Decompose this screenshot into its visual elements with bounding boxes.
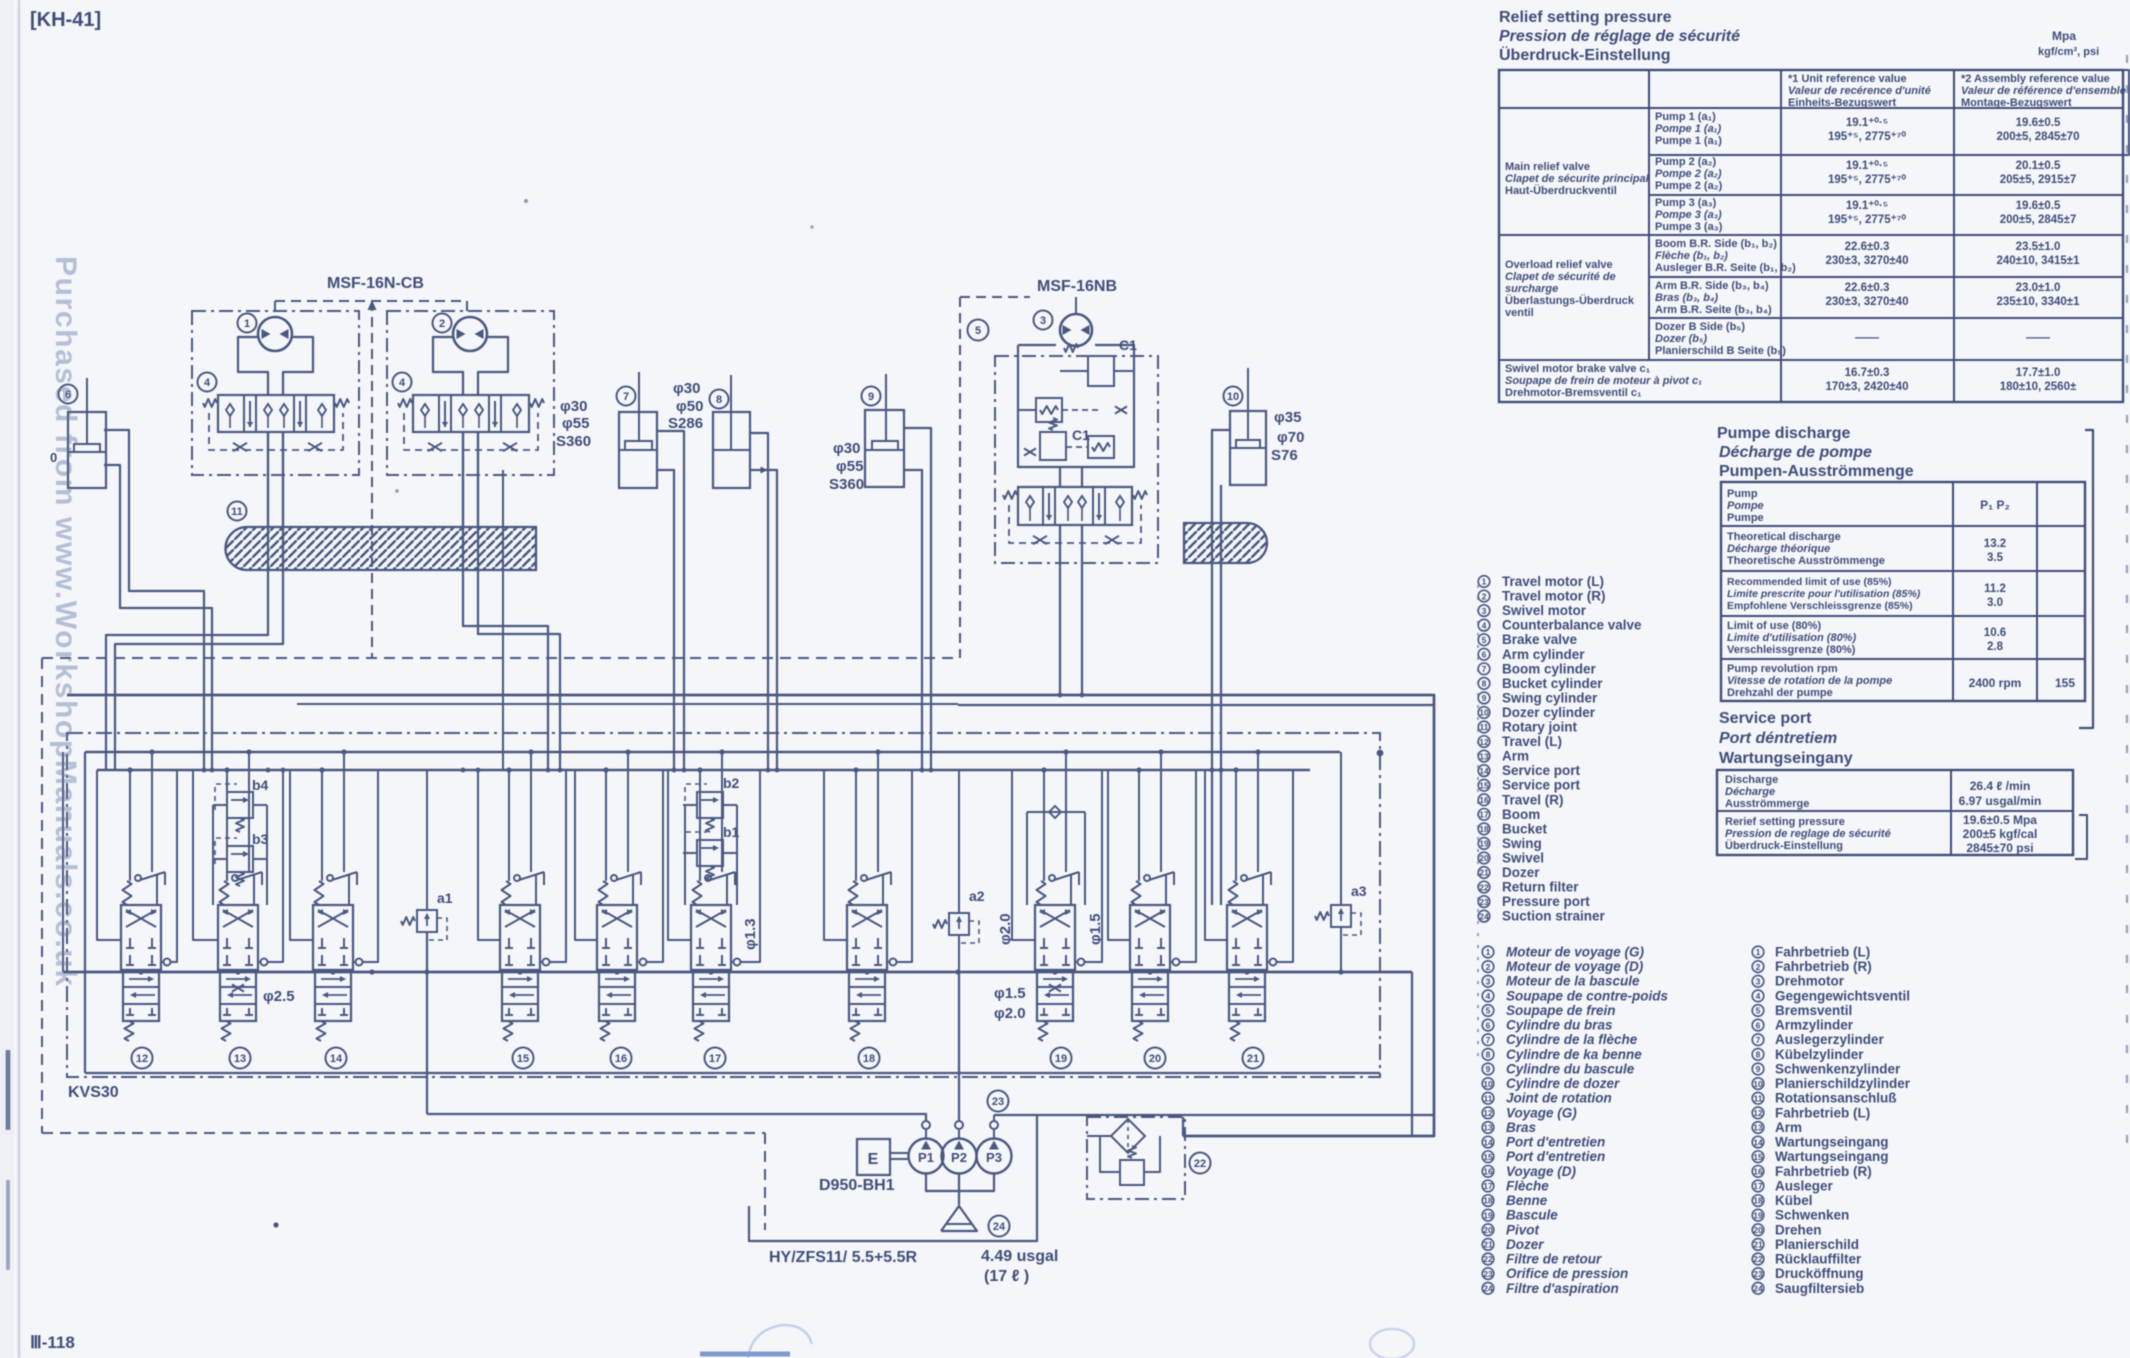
svg-text:Ausströmmerge: Ausströmmerge <box>1725 798 1809 810</box>
svg-text:13: 13 <box>1753 1123 1763 1133</box>
svg-text:16: 16 <box>1483 1167 1493 1177</box>
svg-text:Fahrbetrieb (R): Fahrbetrieb (R) <box>1775 959 1872 974</box>
svg-text:Travel motor (R): Travel motor (R) <box>1502 589 1606 604</box>
svg-text:Filtre d'aspiration: Filtre d'aspiration <box>1506 1281 1619 1296</box>
svg-text:Ausleger: Ausleger <box>1775 1178 1834 1193</box>
svg-text:4.49 usgal: 4.49 usgal <box>981 1248 1058 1265</box>
wire motor loop <box>433 337 463 395</box>
svg-text:21: 21 <box>1483 1240 1493 1250</box>
svg-text:Orifice de pression: Orifice de pression <box>1506 1266 1628 1281</box>
svg-text:Limite prescrite pour l'utilis: Limite prescrite pour l'utilisation (85%… <box>1727 588 1921 600</box>
svg-text:23.0±1.0: 23.0±1.0 <box>2016 282 2061 294</box>
svg-text:Swivel motor brake valve c₁: Swivel motor brake valve c₁ <box>1505 363 1651 375</box>
dashed tank line <box>42 657 956 659</box>
circled 13 <box>230 1048 251 1069</box>
control valve section 12 <box>121 905 161 970</box>
svg-text:Limit of use (80%): Limit of use (80%) <box>1727 620 1821 632</box>
svg-text:19: 19 <box>1483 1210 1493 1220</box>
svg-text:2845±70 psi: 2845±70 psi <box>1966 841 2033 855</box>
svg-text:Pump 1 (a₁): Pump 1 (a₁) <box>1655 111 1716 123</box>
svg-text:Pressure port: Pressure port <box>1502 894 1590 909</box>
junction dots mid bus <box>138 969 143 974</box>
svg-text:24: 24 <box>1479 911 1489 921</box>
circled 18 <box>859 1048 880 1069</box>
svg-text:24: 24 <box>993 1221 1006 1233</box>
throttle in section 19 <box>1049 984 1061 991</box>
svg-text:11: 11 <box>1754 1093 1763 1103</box>
svg-text:S286: S286 <box>668 415 703 432</box>
svg-text:22: 22 <box>1753 1254 1763 1264</box>
svg-text:5: 5 <box>1482 635 1487 645</box>
svg-text:*2 Assembly reference value: *2 Assembly reference value <box>1961 73 2110 85</box>
counterbalance valve group box <box>387 311 554 475</box>
svg-text:Schwenkenzylinder: Schwenkenzylinder <box>1775 1061 1901 1076</box>
svg-text:16: 16 <box>1753 1167 1763 1177</box>
main mid bus <box>63 971 1412 974</box>
circled 2 <box>433 314 452 333</box>
svg-text:Service port: Service port <box>1502 763 1581 778</box>
svg-text:Filtre de retour: Filtre de retour <box>1506 1252 1602 1267</box>
svg-text:Travel (L): Travel (L) <box>1502 734 1562 749</box>
return filter 22 <box>1087 1117 1185 1199</box>
svg-text:Rerief setting pressure: Rerief setting pressure <box>1725 816 1845 828</box>
svg-text:4: 4 <box>1756 991 1761 1001</box>
svg-text:Purchased from www.WorkshopMan: Purchased from www.WorkshopManuals.co.uk <box>49 256 82 986</box>
svg-text:9: 9 <box>1486 1064 1491 1074</box>
svg-text:Pump: Pump <box>1727 488 1758 500</box>
svg-text:φ2.0: φ2.0 <box>994 1005 1026 1022</box>
table3 right bracket artifact <box>2075 815 2087 859</box>
wire risers section 12 <box>129 770 131 881</box>
control valve section 21 <box>1227 905 1267 970</box>
svg-text:22: 22 <box>1479 882 1489 892</box>
engine box E <box>857 1139 890 1175</box>
counterbalance valve 4 <box>393 373 412 392</box>
svg-text:φ30: φ30 <box>673 380 700 397</box>
svg-text:8: 8 <box>1482 679 1487 689</box>
svg-text:17: 17 <box>709 1053 721 1065</box>
pump check ports <box>922 1121 930 1129</box>
travel motor 1 <box>258 317 292 351</box>
svg-text:Auslegerzylinder: Auslegerzylinder <box>1775 1032 1885 1047</box>
wire risers section 13 <box>226 770 228 881</box>
svg-text:Pump 3 (a₃): Pump 3 (a₃) <box>1655 197 1717 209</box>
svg-text:φ70: φ70 <box>1277 429 1304 446</box>
svg-text:Drehmotor-Bremsventil c₁: Drehmotor-Bremsventil c₁ <box>1505 387 1642 399</box>
svg-text:Pumpe discharge: Pumpe discharge <box>1717 425 1850 442</box>
swivel motor 3 <box>1034 311 1053 330</box>
svg-text:17: 17 <box>1753 1181 1763 1191</box>
junction dots <box>202 768 207 773</box>
svg-text:Voyage (D): Voyage (D) <box>1506 1164 1577 1179</box>
svg-text:19: 19 <box>1753 1210 1763 1220</box>
svg-text:φ50: φ50 <box>676 398 703 415</box>
svg-text:2: 2 <box>439 318 445 330</box>
svg-text:10: 10 <box>1479 708 1489 718</box>
svg-text:Pumpe 1 (a₁): Pumpe 1 (a₁) <box>1655 135 1722 147</box>
secondary bus <box>97 769 1310 771</box>
svg-text:Service port: Service port <box>1719 710 1812 727</box>
svg-text:11: 11 <box>1484 1093 1493 1103</box>
svg-text:Wartungseingany: Wartungseingany <box>1719 750 1853 767</box>
svg-text:Einheits-Bezugswert: Einheits-Bezugswert <box>1788 97 1897 109</box>
svg-text:4: 4 <box>204 377 211 389</box>
svg-text:Überdruck-Einstellung: Überdruck-Einstellung <box>1499 45 1671 64</box>
svg-text:Überdruck-Einstellung: Überdruck-Einstellung <box>1725 839 1843 852</box>
svg-text:16: 16 <box>615 1053 627 1065</box>
wire P3 connector <box>993 1115 995 1121</box>
svg-text:Joint de rotation: Joint de rotation <box>1506 1091 1612 1106</box>
svg-text:Flèche: Flèche <box>1506 1178 1549 1193</box>
wire risers section 19 <box>1043 770 1045 881</box>
control valve section 20 <box>1130 905 1170 970</box>
svg-text:6: 6 <box>1482 649 1487 659</box>
svg-text:Drehen: Drehen <box>1775 1222 1822 1237</box>
tank dashed left vertical <box>41 658 43 1133</box>
check valve lower right <box>1088 436 1114 458</box>
relief valve a1 <box>417 910 437 932</box>
svg-text:23: 23 <box>992 1096 1004 1108</box>
svg-text:10: 10 <box>1753 1079 1763 1089</box>
svg-text:23: 23 <box>1479 897 1489 907</box>
svg-text:Arm cylinder: Arm cylinder <box>1502 647 1585 662</box>
svg-text:Décharge théorique: Décharge théorique <box>1727 543 1830 555</box>
overload relief valve b3 <box>227 846 253 872</box>
svg-text:12: 12 <box>1753 1108 1763 1118</box>
svg-text:23: 23 <box>1753 1269 1763 1279</box>
control valve section 16 <box>597 905 637 970</box>
wire risers section 16 <box>605 770 607 881</box>
svg-text:S360: S360 <box>556 433 591 450</box>
pump P3 <box>977 1139 1012 1174</box>
svg-text:8: 8 <box>1486 1050 1491 1060</box>
arm cylinder 6 <box>59 385 78 404</box>
svg-text:Discharge: Discharge <box>1725 774 1778 786</box>
svg-text:16: 16 <box>1479 795 1489 805</box>
svg-text:Moteur de voyage (D): Moteur de voyage (D) <box>1506 959 1644 974</box>
motor unit dash-dot box <box>995 356 1158 563</box>
svg-text:Ausleger B.R. Seite (b₁, b₂): Ausleger B.R. Seite (b₁, b₂) <box>1655 262 1796 274</box>
svg-text:18: 18 <box>1483 1196 1493 1206</box>
svg-text:23: 23 <box>1483 1269 1493 1279</box>
svg-text:Dozer cylinder: Dozer cylinder <box>1502 705 1596 720</box>
svg-text:4: 4 <box>399 377 406 389</box>
svg-text:19.1⁺⁰·⁵: 19.1⁺⁰·⁵ <box>1846 159 1888 172</box>
svg-text:14: 14 <box>1753 1137 1763 1147</box>
svg-text:Vitesse de rotation de la pomp: Vitesse de rotation de la pompe <box>1727 675 1892 687</box>
svg-text:Cylindre de la flèche: Cylindre de la flèche <box>1506 1032 1638 1047</box>
svg-text:Dozer (b₅): Dozer (b₅) <box>1655 333 1707 345</box>
circled 21 <box>1243 1048 1264 1069</box>
svg-text:a1: a1 <box>437 890 453 906</box>
svg-text:Travel motor (L): Travel motor (L) <box>1502 574 1604 589</box>
svg-text:2400 rpm: 2400 rpm <box>1969 676 2022 690</box>
pump discharge table <box>1721 482 2085 701</box>
svg-text:13: 13 <box>234 1053 246 1065</box>
svg-text:φ1.5: φ1.5 <box>994 985 1026 1002</box>
svg-text:b2: b2 <box>723 775 740 791</box>
svg-text:19: 19 <box>1479 839 1489 849</box>
circled 1 <box>238 314 257 333</box>
svg-text:S360: S360 <box>829 476 864 493</box>
svg-text:——: —— <box>1855 330 1879 344</box>
svg-text:6: 6 <box>1486 1020 1491 1030</box>
svg-text:Soupape de contre-poids: Soupape de contre-poids <box>1506 988 1669 1003</box>
svg-text:φ2.5: φ2.5 <box>263 988 295 1005</box>
manifold top bus <box>85 751 1340 754</box>
svg-text:Haut-Überdruckventil: Haut-Überdruckventil <box>1505 184 1617 197</box>
svg-text:Décharge: Décharge <box>1725 786 1775 798</box>
overload relief valve b1 <box>697 840 723 866</box>
junction square dot <box>1377 750 1384 757</box>
svg-text:Fahrbetrieb (R): Fahrbetrieb (R) <box>1775 1164 1872 1179</box>
svg-text:15: 15 <box>1483 1152 1493 1162</box>
svg-text:19.6±0.5: 19.6±0.5 <box>2016 200 2061 212</box>
svg-text:Theoretische Ausströmmenge: Theoretische Ausströmmenge <box>1727 555 1885 567</box>
svg-text:5: 5 <box>1486 1006 1491 1016</box>
svg-text:Voyage (G): Voyage (G) <box>1506 1105 1577 1120</box>
svg-text:11: 11 <box>1480 722 1489 732</box>
svg-text:3: 3 <box>1040 315 1046 327</box>
svg-text:Swing cylinder: Swing cylinder <box>1502 690 1598 705</box>
tank dashed bottom <box>42 1132 765 1134</box>
svg-text:13: 13 <box>1483 1123 1493 1133</box>
svg-text:12: 12 <box>136 1053 148 1065</box>
svg-text:Wartungseingang: Wartungseingang <box>1775 1135 1889 1150</box>
svg-text:Arm: Arm <box>1775 1120 1802 1135</box>
svg-text:14: 14 <box>1483 1137 1493 1147</box>
travel motor 2 <box>453 317 487 351</box>
svg-text:2: 2 <box>1482 591 1487 601</box>
svg-text:Port d'entretien: Port d'entretien <box>1506 1149 1605 1164</box>
svg-text:Port déntretiem: Port déntretiem <box>1719 730 1837 747</box>
circled 17 <box>705 1048 726 1069</box>
wire box2 down <box>502 470 504 770</box>
svg-text:5: 5 <box>975 325 981 337</box>
svg-text:Swing: Swing <box>1502 836 1542 851</box>
rotary joint (right hatched bar) <box>1184 523 1267 563</box>
rotary joint 11 (left hatched bar) <box>228 502 247 521</box>
relief valve C1 (lower) <box>1040 432 1066 460</box>
suction piping <box>926 1174 994 1191</box>
svg-text:Pression de réglage de sécurit: Pression de réglage de sécurité <box>1499 28 1740 45</box>
svg-text:HY/ZFS11/ 5.5+5.5R: HY/ZFS11/ 5.5+5.5R <box>769 1249 918 1266</box>
legend list: french <box>1482 945 1644 960</box>
wire risers section 21 <box>1235 770 1237 881</box>
suction strainer 24 <box>941 1206 977 1231</box>
svg-text:205±5, 2915±7: 205±5, 2915±7 <box>2000 174 2077 186</box>
svg-text:230±3, 3270±40: 230±3, 3270±40 <box>1826 255 1909 267</box>
dashed pilot line MSF-16N-CB <box>275 300 467 302</box>
svg-text:17.7±1.0: 17.7±1.0 <box>2016 367 2061 379</box>
svg-text:0: 0 <box>50 450 57 465</box>
svg-text:Armzylinder: Armzylinder <box>1775 1018 1854 1033</box>
wires b-valves <box>212 805 214 905</box>
svg-text:195⁺⁵, 2775⁺⁷⁰: 195⁺⁵, 2775⁺⁷⁰ <box>1828 173 1906 186</box>
svg-text:Boom: Boom <box>1502 807 1540 822</box>
svg-text:Pump revolution rpm: Pump revolution rpm <box>1727 663 1838 675</box>
tank return pipe <box>749 1115 1037 1241</box>
control valve section 15 <box>500 905 540 970</box>
second bus line <box>297 703 958 705</box>
svg-text:S76: S76 <box>1271 447 1298 464</box>
svg-text:Brake valve: Brake valve <box>1502 632 1578 647</box>
control valve section 17 <box>691 905 731 970</box>
svg-text:3.0: 3.0 <box>1987 597 2003 609</box>
svg-text:19.1⁺⁰·⁵: 19.1⁺⁰·⁵ <box>1846 199 1888 212</box>
svg-text:Relief setting pressure: Relief setting pressure <box>1499 9 1672 26</box>
svg-text:Moteur de voyage (G): Moteur de voyage (G) <box>1506 945 1645 960</box>
svg-text:15: 15 <box>1479 780 1489 790</box>
svg-text:Cylindre de ka benne: Cylindre de ka benne <box>1506 1047 1642 1062</box>
valve block outer dash-dot box <box>67 733 1380 1077</box>
circled 12 <box>132 1048 153 1069</box>
svg-text:3: 3 <box>1756 976 1761 986</box>
svg-text:φ1.3: φ1.3 <box>742 918 759 950</box>
bucket cylinder 8 <box>710 390 729 409</box>
svg-text:9: 9 <box>1756 1064 1761 1074</box>
swivel brake counterbalance valve <box>1018 487 1132 525</box>
svg-text:Soupape de frein: Soupape de frein <box>1506 1003 1616 1018</box>
circled 15 <box>513 1048 534 1069</box>
svg-text:19: 19 <box>1055 1053 1067 1065</box>
svg-text:Mpa: Mpa <box>2052 29 2076 43</box>
svg-text:KVS30: KVS30 <box>68 1084 119 1101</box>
svg-text:15: 15 <box>517 1053 529 1065</box>
svg-text:Fahrbetrieb (L): Fahrbetrieb (L) <box>1775 945 1870 960</box>
svg-text:Ⅲ-118: Ⅲ-118 <box>30 1333 75 1352</box>
relief pressure table <box>1499 70 2123 402</box>
svg-text:13.2: 13.2 <box>1984 538 2006 550</box>
svg-text:P2: P2 <box>951 1150 967 1165</box>
counterbalance valve group box <box>192 311 359 475</box>
svg-text:240±10, 3415±1: 240±10, 3415±1 <box>1997 255 2081 267</box>
svg-text:Schwenken: Schwenken <box>1775 1208 1849 1223</box>
pump P1 <box>909 1139 944 1174</box>
scan specks <box>273 1222 278 1227</box>
svg-text:Wartungseingang: Wartungseingang <box>1775 1149 1889 1164</box>
svg-text:14: 14 <box>1479 766 1489 776</box>
svg-text:Planierschild B Seite (b₅): Planierschild B Seite (b₅) <box>1655 345 1786 357</box>
svg-text:Bucket cylinder: Bucket cylinder <box>1502 676 1603 691</box>
svg-text:Flèche (b₁, b₂): Flèche (b₁, b₂) <box>1655 250 1728 262</box>
svg-text:Overload relief valve: Overload relief valve <box>1505 259 1613 271</box>
svg-text:Empfohlene Verschleissgrenze (: Empfohlene Verschleissgrenze (85%) <box>1727 600 1913 612</box>
wire risers section 17 <box>699 770 701 881</box>
svg-text:Pompe: Pompe <box>1727 500 1764 512</box>
svg-text:20: 20 <box>1149 1053 1161 1065</box>
wire cyl6 <box>104 430 204 770</box>
svg-text:Gegengewichtsventil: Gegengewichtsventil <box>1775 988 1910 1003</box>
wires to rotary joint <box>267 432 269 530</box>
svg-text:Pumpen-Ausströmmenge: Pumpen-Ausströmmenge <box>1719 463 1914 480</box>
control valve section 13 <box>218 905 258 970</box>
svg-text:Pumpe: Pumpe <box>1727 512 1764 524</box>
svg-text:Cylindre de dozer: Cylindre de dozer <box>1506 1076 1620 1091</box>
svg-text:2: 2 <box>1486 962 1491 972</box>
svg-text:20: 20 <box>1753 1225 1763 1235</box>
svg-text:9: 9 <box>1482 693 1487 703</box>
svg-text:200±5, 2845±70: 200±5, 2845±70 <box>1997 131 2080 143</box>
svg-text:Pression de reglage de sécurit: Pression de reglage de sécurité <box>1725 828 1891 840</box>
svg-text:Swivel motor: Swivel motor <box>1502 603 1587 618</box>
svg-text:ventil: ventil <box>1505 307 1534 319</box>
dozer cylinder 10 <box>1224 387 1243 406</box>
svg-text:22: 22 <box>1194 1158 1206 1170</box>
svg-text:Pompe 2 (a₂): Pompe 2 (a₂) <box>1655 168 1722 180</box>
check valve <box>1036 398 1062 422</box>
svg-text:195⁺⁵, 2775⁺⁷⁰: 195⁺⁵, 2775⁺⁷⁰ <box>1828 213 1906 226</box>
svg-text:19.1⁺⁰·⁵: 19.1⁺⁰·⁵ <box>1846 116 1888 129</box>
svg-text:Décharge de pompe: Décharge de pompe <box>1719 444 1872 461</box>
svg-text:3.5: 3.5 <box>1987 552 2004 564</box>
return line to pumps <box>427 1114 926 1121</box>
svg-text:1: 1 <box>1756 947 1761 957</box>
svg-text:Clapet de sécurité de: Clapet de sécurité de <box>1505 271 1616 283</box>
svg-text:(17 ℓ ): (17 ℓ ) <box>984 1268 1029 1285</box>
svg-text:MSF-16N-CB: MSF-16N-CB <box>327 275 424 292</box>
svg-text:Swivel: Swivel <box>1502 850 1544 865</box>
svg-text:Kübelzylinder: Kübelzylinder <box>1775 1047 1864 1062</box>
svg-text:17: 17 <box>1483 1181 1493 1191</box>
wire motor loop <box>238 337 268 395</box>
svg-text:7: 7 <box>1486 1035 1491 1045</box>
svg-text:Travel (R): Travel (R) <box>1502 792 1564 807</box>
svg-text:230±3, 3270±40: 230±3, 3270±40 <box>1826 296 1909 308</box>
svg-text:10: 10 <box>1227 391 1239 403</box>
svg-text:16.7±0.3: 16.7±0.3 <box>1845 367 1890 379</box>
svg-text:kgf/cm², psi: kgf/cm², psi <box>2038 46 2099 58</box>
wire risers section 18 <box>855 770 857 881</box>
svg-text:P3: P3 <box>986 1150 1002 1165</box>
svg-text:φ35: φ35 <box>1274 409 1301 426</box>
svg-text:17: 17 <box>1479 810 1489 820</box>
svg-text:3: 3 <box>1486 976 1491 986</box>
svg-text:7: 7 <box>623 391 629 403</box>
wire cyl10 <box>1212 430 1230 905</box>
svg-text:21: 21 <box>1479 868 1489 878</box>
svg-text:5: 5 <box>1756 1006 1761 1016</box>
svg-text:Kübel: Kübel <box>1775 1193 1813 1208</box>
legend list: english <box>1478 574 1604 589</box>
svg-text:Drehzahl der pumpe: Drehzahl der pumpe <box>1727 687 1833 699</box>
svg-text:Valeur de recérence d'unité: Valeur de recérence d'unité <box>1788 85 1931 97</box>
svg-text:C1: C1 <box>1119 337 1137 353</box>
wire risers section 15 <box>508 770 510 881</box>
pump P2 <box>942 1139 977 1174</box>
pilot dashed box with throttles <box>209 413 343 450</box>
circled 14 <box>326 1048 347 1069</box>
svg-text:4: 4 <box>1486 991 1491 1001</box>
svg-text:20: 20 <box>1479 853 1489 863</box>
wire P2 riser <box>958 972 960 1121</box>
control valve section 18 <box>847 905 887 970</box>
svg-text:Arm B.R. Seite (b₃, b₄): Arm B.R. Seite (b₃, b₄) <box>1655 304 1772 316</box>
svg-text:Bucket: Bucket <box>1502 821 1548 836</box>
svg-text:19.6±0.5 Mpa: 19.6±0.5 Mpa <box>1963 813 2037 827</box>
svg-text:22.6±0.3: 22.6±0.3 <box>1845 282 1890 294</box>
svg-text:Suction strainer: Suction strainer <box>1502 909 1606 924</box>
svg-text:a2: a2 <box>969 888 985 904</box>
svg-text:8: 8 <box>1756 1050 1761 1060</box>
control valve section 19 <box>1035 905 1075 970</box>
circled 20 <box>1145 1048 1166 1069</box>
svg-text:Pivot: Pivot <box>1506 1222 1540 1237</box>
svg-text:φ30: φ30 <box>833 440 860 457</box>
svg-text:235±10, 3340±1: 235±10, 3340±1 <box>1997 296 2081 308</box>
swing cylinder 9 <box>862 387 881 406</box>
relief valve a2 <box>949 913 969 935</box>
